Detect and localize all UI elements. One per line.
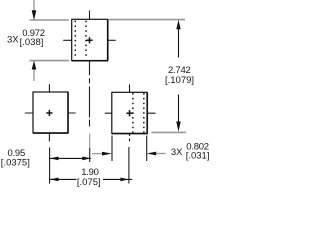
svg-text:[.038]: [.038] <box>20 37 44 48</box>
dimension 1.90 line right segment with right arrow <box>103 178 129 180</box>
svg-text:3X: 3X <box>171 147 183 158</box>
svg-text:[.075]: [.075] <box>77 177 101 188</box>
dimension 0.802 left arrow (points right at pad left edge) <box>92 153 103 155</box>
dimension 2.742 line lower segment with down arrow <box>178 95 180 123</box>
svg-text:3X: 3X <box>7 34 19 45</box>
dimension 0.972 top arrow (down) <box>33 0 35 10</box>
svg-text:[.1079]: [.1079] <box>165 75 194 86</box>
center mark plus of pad P1 <box>46 110 52 116</box>
dimension 0.95 line with outward arrows <box>50 157 91 159</box>
lead outline dotted column B in pad P3 <box>143 93 145 133</box>
centerline vertical of pad P3 <box>129 85 131 142</box>
pad P2 (top tab pad) <box>72 19 108 60</box>
centerline vertical of pad P2 <box>89 11 91 127</box>
extension line (gray) bottom right for 2.742 dim <box>151 131 186 133</box>
centerline vertical of pad P1 <box>48 84 50 141</box>
svg-text:[.0375]: [.0375] <box>1 158 30 169</box>
dimension 0.802 right arrow (points left at pad right edge) <box>147 152 156 156</box>
extension line below pad P1 center for dims <box>49 148 51 184</box>
center mark plus of pad P2 <box>86 37 92 43</box>
extension line (gray) top of pad P2 for 0.972 dim <box>30 19 70 21</box>
svg-text:2.742: 2.742 <box>168 65 191 76</box>
extension line (gray) top right for 2.742 dim <box>109 19 185 21</box>
dimension 1.90 overshoot stub right of extension line <box>129 178 132 180</box>
extension line (gray) bottom of pad P2 for 0.972 dim <box>30 60 70 62</box>
pad P1 (bottom left) <box>33 92 68 133</box>
extension line below node for 0.95 dim (black part) <box>89 148 91 162</box>
extension line (gray segment) below node between pads for 0.95 dim <box>89 134 91 149</box>
extension line below pad P3 left edge for 0.802 dim <box>111 136 113 162</box>
centerline horizontal of pad P2 <box>63 39 115 41</box>
lead outline dotted column B in pad P2 <box>85 21 87 56</box>
dimension 1.90 line left segment with left arrow <box>50 178 77 180</box>
extension line below pad P3 center for 1.90 dim <box>128 147 130 184</box>
lead outline dotted column A in pad P2 <box>75 21 77 56</box>
centerline horizontal of pad P3 <box>105 112 156 114</box>
extension line below pad P3 right edge for 0.802 dim <box>146 136 148 162</box>
svg-text:[.031]: [.031] <box>186 151 210 162</box>
dimension 0.972 bottom arrow (up) <box>32 61 37 70</box>
pad P3 (bottom right) <box>112 92 147 133</box>
lead outline dotted column A in pad P3 <box>132 93 134 133</box>
centerline horizontal of pad P1 <box>25 112 76 114</box>
dimension 2.742 line upper segment with up arrow <box>176 20 180 30</box>
center mark plus of pad P3 <box>126 110 132 116</box>
